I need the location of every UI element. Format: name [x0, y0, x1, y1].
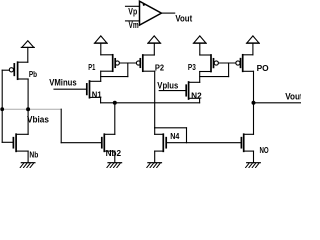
- svg-text:Vbias: Vbias: [27, 114, 49, 124]
- svg-text:PO: PO: [257, 64, 269, 73]
- svg-text:NO: NO: [260, 146, 269, 155]
- svg-text:Vout: Vout: [285, 92, 301, 102]
- svg-text:Vplus: Vplus: [157, 81, 178, 91]
- svg-text:Nb: Nb: [29, 150, 38, 159]
- svg-text:P1: P1: [88, 63, 95, 72]
- svg-text:N2: N2: [191, 92, 202, 101]
- svg-text:VMinus: VMinus: [49, 77, 77, 87]
- svg-text:Pb: Pb: [29, 70, 37, 79]
- svg-text:Vp: Vp: [128, 6, 137, 16]
- svg-text:Vm: Vm: [129, 20, 139, 30]
- svg-text:P2: P2: [155, 64, 165, 73]
- svg-text:Vout: Vout: [175, 13, 192, 23]
- svg-text:Nb2: Nb2: [106, 149, 122, 158]
- svg-text:P3: P3: [188, 63, 196, 72]
- svg-text:N4: N4: [170, 132, 180, 141]
- svg-text:N1: N1: [92, 90, 102, 99]
